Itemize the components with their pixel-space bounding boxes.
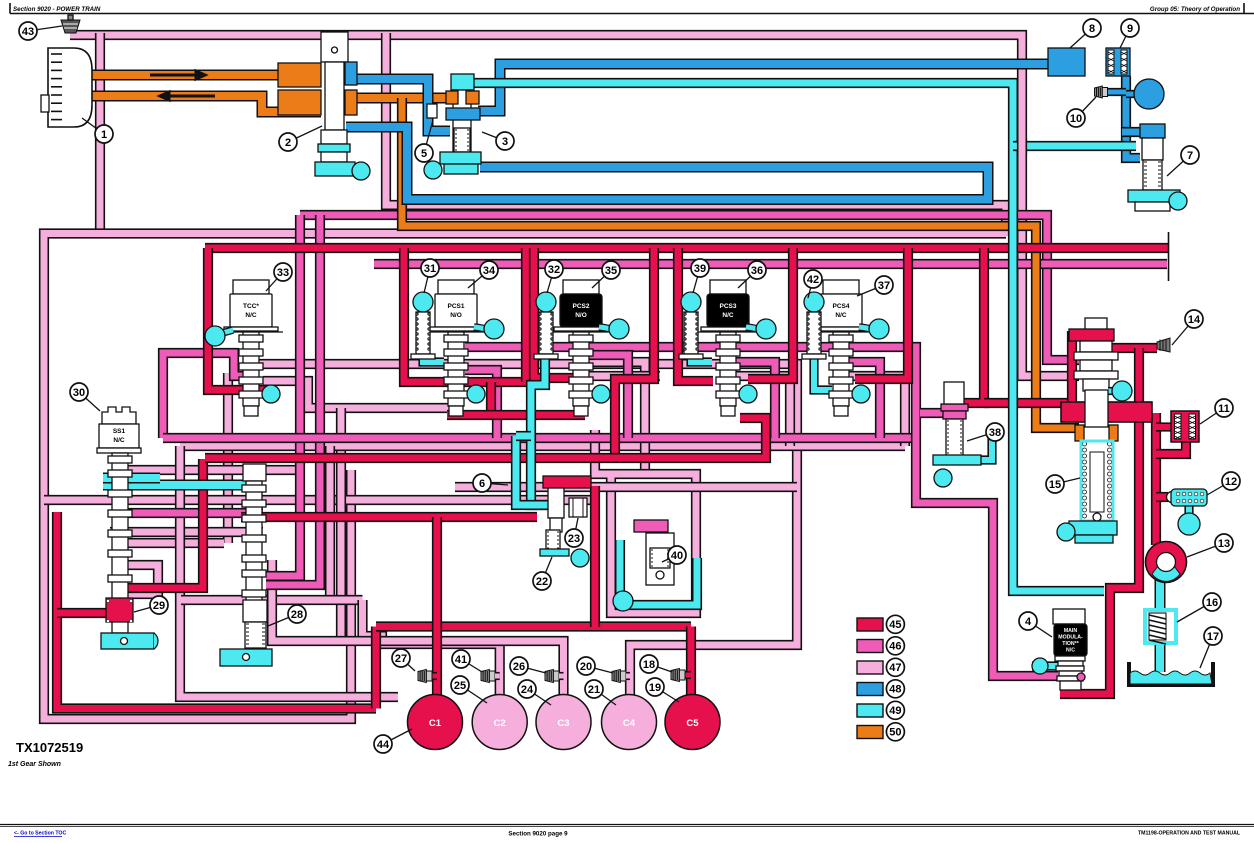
svg-text:N/C: N/C	[722, 312, 734, 319]
svg-text:Group 05: Theory of Operation: Group 05: Theory of Operation	[1150, 6, 1240, 13]
svg-text:PCS2: PCS2	[573, 303, 590, 310]
svg-text:37: 37	[878, 280, 890, 292]
svg-text:MODULA-: MODULA-	[1058, 635, 1083, 641]
svg-text:C5: C5	[686, 718, 699, 729]
svg-text:7: 7	[1187, 150, 1193, 162]
svg-text:40: 40	[671, 550, 683, 562]
svg-text:45: 45	[889, 619, 901, 631]
svg-text:N/C: N/C	[113, 437, 125, 444]
svg-text:N/O: N/O	[575, 312, 587, 319]
svg-text:4: 4	[1025, 616, 1032, 628]
svg-text:12: 12	[1225, 476, 1237, 488]
svg-text:N/C: N/C	[835, 312, 847, 319]
svg-text:30: 30	[73, 387, 85, 399]
svg-text:38: 38	[989, 427, 1001, 439]
svg-text:TX1072519: TX1072519	[16, 740, 83, 755]
svg-text:49: 49	[889, 705, 901, 717]
svg-text:5: 5	[421, 148, 427, 160]
svg-text:15: 15	[1049, 479, 1061, 491]
svg-text:42: 42	[807, 274, 819, 286]
svg-text:16: 16	[1206, 597, 1218, 609]
svg-text:9: 9	[1127, 23, 1133, 35]
svg-text:C4: C4	[623, 718, 636, 729]
svg-text:28: 28	[291, 609, 303, 621]
svg-text:6: 6	[479, 478, 485, 490]
svg-text:2: 2	[285, 137, 291, 149]
svg-text:SS1: SS1	[113, 428, 126, 435]
svg-text:36: 36	[751, 265, 763, 277]
svg-text:46: 46	[889, 641, 901, 653]
svg-text:<- Go to Section TOC: <- Go to Section TOC	[14, 831, 66, 837]
svg-text:17: 17	[1207, 631, 1219, 643]
svg-text:C1: C1	[429, 718, 442, 729]
svg-text:Section 9020 page 9: Section 9020 page 9	[508, 831, 568, 838]
svg-text:PCS3: PCS3	[720, 303, 737, 310]
svg-text:27: 27	[395, 653, 407, 665]
svg-text:11: 11	[1218, 403, 1230, 415]
svg-text:44: 44	[377, 739, 390, 751]
svg-text:20: 20	[580, 661, 592, 673]
svg-text:1st Gear Shown: 1st Gear Shown	[8, 761, 61, 768]
svg-text:33: 33	[277, 267, 289, 279]
svg-text:39: 39	[694, 263, 706, 275]
svg-text:8: 8	[1089, 23, 1095, 35]
svg-text:26: 26	[513, 661, 525, 673]
svg-text:C3: C3	[557, 718, 569, 729]
svg-text:MAIN: MAIN	[1064, 628, 1078, 634]
svg-text:22: 22	[536, 576, 548, 588]
svg-text:41: 41	[455, 654, 467, 666]
svg-text:Section 9020 - POWER TRAIN: Section 9020 - POWER TRAIN	[13, 6, 101, 13]
svg-text:25: 25	[454, 680, 466, 692]
svg-text:PCS4: PCS4	[833, 303, 850, 310]
svg-text:34: 34	[483, 265, 496, 277]
svg-text:TCC*: TCC*	[243, 303, 259, 310]
svg-text:32: 32	[548, 264, 560, 276]
svg-text:24: 24	[521, 684, 534, 696]
svg-text:3: 3	[502, 136, 508, 148]
svg-text:43: 43	[22, 26, 34, 38]
svg-text:PCS1: PCS1	[448, 303, 465, 310]
svg-text:23: 23	[568, 533, 580, 545]
svg-text:50: 50	[889, 727, 901, 739]
svg-text:C2: C2	[494, 718, 506, 729]
svg-text:35: 35	[605, 265, 617, 277]
svg-text:1: 1	[101, 129, 107, 141]
svg-text:10: 10	[1070, 113, 1082, 125]
svg-text:N/C: N/C	[1066, 648, 1075, 654]
svg-text:TION**: TION**	[1062, 641, 1079, 647]
svg-text:13: 13	[1218, 538, 1230, 550]
svg-text:TM1198-OPERATION AND TEST MANU: TM1198-OPERATION AND TEST MANUAL	[1138, 831, 1241, 837]
svg-text:21: 21	[588, 684, 600, 696]
svg-text:18: 18	[643, 659, 655, 671]
svg-text:47: 47	[889, 662, 901, 674]
svg-text:29: 29	[153, 600, 165, 612]
svg-text:48: 48	[889, 684, 901, 696]
svg-text:14: 14	[1188, 314, 1201, 326]
svg-text:N/C: N/C	[245, 312, 257, 319]
svg-text:19: 19	[649, 682, 661, 694]
svg-text:31: 31	[424, 263, 436, 275]
svg-text:N/O: N/O	[450, 312, 462, 319]
